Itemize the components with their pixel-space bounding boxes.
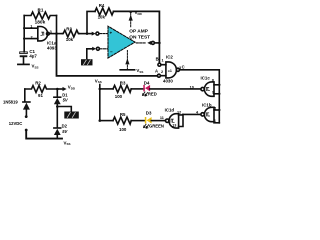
- LED D3 arrows: [144, 124, 149, 128]
- node zener midpoint: [56, 105, 59, 108]
- nand gate IC1d: [166, 114, 179, 128]
- svg-text:VDD: VDD: [135, 10, 143, 16]
- svg-text:D4: D4: [144, 80, 150, 85]
- node bus junction b5: [218, 109, 220, 111]
- wire battery to VSS rail: [26, 131, 62, 139]
- svg-text:VSS: VSS: [32, 64, 39, 70]
- svg-text:1: 1: [162, 59, 164, 63]
- svg-text:91: 91: [38, 93, 43, 98]
- zener diode D1: [54, 89, 61, 107]
- svg-text:2: 2: [31, 36, 33, 40]
- resistor R4 10k: [95, 8, 114, 15]
- svg-text:8: 8: [212, 79, 214, 83]
- terminal battery minus: [25, 129, 28, 132]
- node output drop junction: [158, 42, 161, 45]
- terminal B circle: [158, 63, 161, 66]
- svg-text:4030: 4030: [163, 79, 173, 84]
- node bus junctions c: [218, 84, 220, 95]
- resistor R3 10k: [63, 30, 80, 37]
- power pin VSS of op-amp: [120, 51, 134, 70]
- svg-text:6: 6: [214, 119, 216, 123]
- wire VDD stub arrow: [57, 87, 66, 91]
- wire C to right bus: [180, 70, 220, 123]
- terminal battery plus: [25, 115, 28, 118]
- node VDD junction: [56, 88, 59, 91]
- svg-text:B: B: [156, 57, 159, 62]
- svg-text:ON TEST: ON TEST: [129, 34, 150, 40]
- svg-text:+: +: [110, 30, 113, 35]
- wire to chassis ground 2: [57, 107, 71, 112]
- svg-text:2: 2: [161, 70, 163, 74]
- LED D4 red: [143, 85, 150, 92]
- LED D3 green: [145, 117, 152, 124]
- svg-text:VSS: VSS: [64, 140, 71, 146]
- svg-text:R4: R4: [99, 3, 105, 8]
- wire VSS tap red row: [99, 85, 101, 121]
- svg-text:IC2: IC2: [166, 55, 173, 60]
- op-amp gate IC1a: [38, 27, 50, 41]
- svg-text:=1: =1: [168, 69, 172, 73]
- svg-text:180k: 180k: [35, 19, 46, 25]
- svg-text:R1: R1: [38, 7, 44, 12]
- resistor R3 100 red row: [113, 85, 131, 92]
- svg-text:5: 5: [214, 107, 216, 111]
- resistor R2 91: [25, 86, 58, 93]
- resistor R1: [24, 12, 56, 19]
- svg-text:10k: 10k: [66, 37, 74, 42]
- svg-text:IC1b: IC1b: [202, 102, 212, 107]
- wire supply rail to IC2 A: [57, 34, 158, 76]
- wire R1 right drop: [56, 16, 58, 34]
- wire IC1a output: [49, 33, 62, 35]
- ground chassis 1: [81, 59, 93, 65]
- svg-text:10k: 10k: [98, 15, 106, 20]
- pin 5 stub: [214, 109, 219, 111]
- svg-text:IC1d: IC1d: [165, 107, 175, 112]
- node output junction: [55, 32, 58, 35]
- wire inverting input from ground: [87, 49, 92, 59]
- svg-text:A: A: [155, 69, 158, 74]
- svg-text:13: 13: [172, 123, 176, 127]
- wire LED to IC1d output: [151, 120, 165, 122]
- svg-text:RED: RED: [148, 91, 157, 96]
- op-amp U1 on test: [108, 26, 135, 58]
- wire green row: [100, 120, 113, 122]
- wire to R3 red: [100, 88, 113, 90]
- wire LED to IC1c output: [150, 88, 201, 90]
- wire feedback riser: [87, 11, 95, 33]
- wire tie to IC1b output: [183, 113, 201, 115]
- pin 8 stub: [214, 84, 219, 86]
- wire R4 to output drop: [114, 11, 160, 63]
- svg-text:12VDC: 12VDC: [9, 121, 22, 126]
- svg-text:100: 100: [115, 94, 123, 99]
- nand gate IC1c: [201, 82, 214, 96]
- svg-text:4µ7: 4µ7: [29, 54, 37, 59]
- probe output: [136, 41, 159, 45]
- svg-text:11: 11: [160, 116, 164, 120]
- svg-text:−: −: [110, 50, 113, 55]
- diode 1N5819: [23, 89, 30, 115]
- wire R3 to LED D4: [131, 88, 144, 90]
- wire IC1d input tie: [179, 114, 183, 126]
- LED D4 arrows: [143, 92, 148, 96]
- pin 9 stub: [214, 93, 219, 95]
- probe inverting input: [92, 47, 107, 51]
- svg-text:VSS: VSS: [136, 68, 143, 74]
- svg-text:12: 12: [177, 110, 181, 114]
- terminal A circle: [157, 74, 160, 77]
- svg-text:R5: R5: [120, 112, 126, 117]
- svg-text:R3: R3: [66, 27, 72, 32]
- power pin VDD of op-amp: [129, 11, 133, 28]
- svg-text:R3: R3: [120, 80, 126, 85]
- svg-text:VDD: VDD: [68, 85, 76, 91]
- node red row junction: [99, 88, 102, 91]
- svg-text:1N5819: 1N5819: [3, 100, 18, 105]
- svg-text:D3: D3: [146, 111, 152, 116]
- capacitor C1: [20, 51, 28, 64]
- wire IC1a input stubs: [24, 28, 38, 38]
- svg-text:VSS: VSS: [95, 78, 102, 84]
- svg-text:1: 1: [30, 25, 32, 29]
- pin 6 stub: [214, 122, 219, 124]
- svg-text:IC1c: IC1c: [201, 76, 211, 81]
- wire R3 to probe: [79, 33, 91, 35]
- zener diode D2: [54, 107, 61, 139]
- probe non-inverting input: [92, 32, 108, 36]
- resistor R5 100: [113, 117, 131, 124]
- nand gate IC1b: [201, 107, 214, 121]
- xor gate IC2: [160, 62, 179, 78]
- ground VSS under C1: [18, 64, 39, 70]
- svg-text:C: C: [182, 64, 185, 69]
- node rail-input junctions: [23, 27, 25, 40]
- ground chassis 2: [64, 112, 79, 119]
- svg-text:R2: R2: [35, 81, 41, 86]
- wire R5 to LED D3: [131, 120, 145, 122]
- svg-text:100: 100: [119, 127, 127, 132]
- svg-text:OP AMP: OP AMP: [129, 29, 148, 35]
- svg-text:GREEN: GREEN: [149, 124, 164, 129]
- node feedback junction: [86, 32, 89, 35]
- wire left input rail: [23, 16, 25, 52]
- svg-text:9: 9: [212, 90, 214, 94]
